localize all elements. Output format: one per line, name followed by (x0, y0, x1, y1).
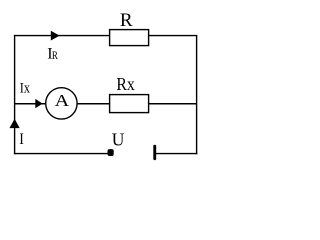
svg-text:Ix: Ix (20, 81, 31, 97)
ammeter U1 (A meter) (46, 88, 77, 119)
svg-text:A: A (55, 91, 70, 110)
wire: bottom left segment to terminal dot (14, 153, 111, 155)
wire: top side of outer loop (14, 35, 197, 37)
resistor R2 box (Rx) (110, 95, 149, 113)
current arrow I on left wire (upward) (10, 119, 20, 128)
svg-text:Rx: Rx (116, 74, 134, 94)
svg-text:U: U (112, 129, 125, 149)
resistor R1 box (R) (110, 30, 149, 46)
terminal dot (left terminal of source U) (108, 149, 114, 156)
wire: left side of outer loop (14, 35, 16, 154)
svg-text:IR: IR (47, 46, 58, 63)
current arrow I_R on top wire (51, 31, 60, 41)
wire: middle branch through ammeter and Rx (15, 103, 197, 105)
svg-text:I: I (19, 131, 24, 148)
terminal bar (right terminal of source U) (153, 145, 156, 160)
current arrow Ix on middle branch (35, 99, 42, 108)
svg-text:R: R (120, 10, 133, 31)
wire: right side of outer loop (196, 35, 198, 154)
wire: bottom right segment from terminal bar (155, 153, 198, 155)
